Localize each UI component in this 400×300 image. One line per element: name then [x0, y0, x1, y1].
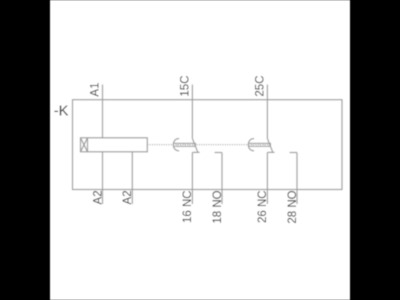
- NO fixed contact 18NO: [215, 152, 223, 154]
- wire 15C: [191, 85, 193, 139]
- actuator bar contact 2: [249, 143, 271, 146]
- svg-text:A2: A2: [92, 190, 104, 204]
- svg-text:15C: 15C: [180, 75, 192, 96]
- contact blade 25C-26NC: [267, 139, 273, 153]
- wire 18NO: [221, 153, 223, 205]
- contact blade 15C-16NC: [192, 139, 198, 153]
- wire 26NC: [266, 152, 268, 204]
- NO fixed contact 28NO: [290, 152, 298, 154]
- wire 25C: [266, 85, 268, 139]
- wire 28NO: [296, 153, 298, 205]
- actuator arc contact 2: [248, 139, 254, 151]
- wire A2 right: [131, 152, 133, 204]
- relay outline -K: [73, 100, 343, 190]
- wire A2 left: [102, 152, 104, 204]
- NC fixed contact 16NC: [192, 151, 199, 153]
- wire A1: [102, 85, 104, 138]
- svg-text:A2: A2: [122, 190, 134, 204]
- wire 16NC: [191, 152, 193, 204]
- coil X-box: [81, 138, 88, 152]
- actuator bar contact 1: [174, 143, 196, 146]
- svg-text:28 NO: 28 NO: [287, 190, 299, 223]
- NC fixed contact 26NC: [267, 151, 274, 153]
- svg-text:25C: 25C: [255, 75, 267, 96]
- svg-text:-K: -K: [54, 103, 69, 119]
- svg-text:16 NC: 16 NC: [182, 190, 194, 223]
- svg-text:26 NC: 26 NC: [257, 190, 269, 223]
- svg-text:18 NO: 18 NO: [212, 190, 224, 223]
- svg-text:A1: A1: [90, 83, 102, 97]
- actuator arc contact 1: [173, 139, 179, 151]
- coil K: [81, 138, 148, 152]
- mechanical link (dashed): [147, 144, 270, 146]
- white drawing sheet: [50, 0, 350, 300]
